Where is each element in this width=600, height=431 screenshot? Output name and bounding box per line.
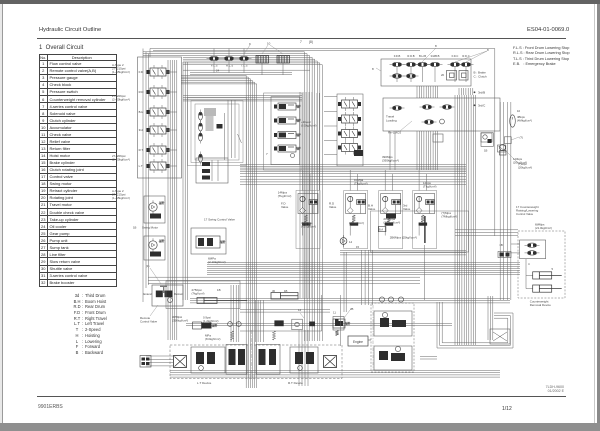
check block small bbox=[433, 134, 443, 142]
section title bbox=[39, 45, 83, 51]
svg-text:Retract: Retract bbox=[174, 292, 183, 296]
brake booster block left bbox=[140, 356, 151, 368]
top dark strip bbox=[0, 0, 600, 4]
left page edge bbox=[0, 4, 3, 424]
svg-text:(8): (8) bbox=[309, 40, 313, 44]
check circle on pilot line 2 bbox=[236, 322, 241, 327]
counterweight removal cylinder 2 bbox=[533, 285, 552, 292]
wire pump verticals bbox=[299, 92, 301, 298]
svg-text:(42kgf/cm²): (42kgf/cm²) bbox=[301, 225, 316, 229]
svg-text:(20kgf/cm²): (20kgf/cm²) bbox=[518, 166, 532, 170]
svg-text:4: 4 bbox=[528, 262, 530, 266]
wire stubs to 3-series bank bbox=[324, 96, 337, 98]
wire swing feeder lines bbox=[183, 95, 302, 97]
pilot line gauge box bbox=[292, 319, 303, 330]
relief valve left of pump bbox=[333, 319, 345, 328]
svg-text:9: 9 bbox=[249, 42, 251, 46]
counterweight removal cylinder 1 bbox=[533, 272, 552, 279]
3-series bank valve 2 bbox=[342, 115, 358, 123]
pilot valve 3rd/B bbox=[422, 105, 431, 109]
relief block B.A bbox=[378, 227, 386, 232]
counterweight pilot valve lower bbox=[527, 251, 536, 255]
svg-text:(4Mkgf/cm²): (4Mkgf/cm²) bbox=[517, 119, 532, 123]
solenoid box B bbox=[447, 71, 457, 81]
page number bbox=[502, 406, 512, 412]
wire drain verticals below travel bbox=[298, 330, 300, 386]
wire below H2 lines bbox=[148, 276, 420, 278]
svg-text:3rd/C: 3rd/C bbox=[478, 104, 486, 108]
check valve chain bbox=[199, 112, 203, 120]
svg-text:7: 7 bbox=[266, 152, 268, 156]
accumulator F.D assembly bbox=[296, 191, 320, 249]
svg-text:3rd: 3rd bbox=[139, 128, 143, 132]
wire assembly risers bbox=[302, 170, 304, 191]
travel device outer box bbox=[170, 345, 342, 379]
svg-text:1B: 1B bbox=[217, 288, 221, 292]
brake/clutch pilot valve box bbox=[381, 59, 471, 86]
wire below assemblies bundle bbox=[340, 250, 466, 252]
right gray strip bbox=[597, 4, 600, 431]
solenoid valve block 10b bbox=[277, 56, 290, 64]
svg-text:Swing Motor: Swing Motor bbox=[142, 226, 158, 230]
wire H2 bundle bbox=[207, 262, 520, 264]
svg-text:(1~15kgf/cm²): (1~15kgf/cm²) bbox=[112, 196, 130, 200]
check circle on pilot line bbox=[228, 322, 233, 327]
3-series bank valve 3 bbox=[342, 130, 358, 138]
pump unit outer box bbox=[371, 303, 414, 372]
svg-text:14: 14 bbox=[298, 308, 302, 312]
pilot line spring bbox=[335, 331, 338, 336]
parts table bbox=[0, 0, 600, 1]
footer rule bbox=[37, 396, 566, 397]
left legend bbox=[73, 293, 107, 356]
oil cooler box bbox=[490, 329, 510, 344]
svg-text:2B: 2B bbox=[350, 307, 354, 311]
svg-text:B.H.B: B.H.B bbox=[419, 54, 426, 58]
pilot valve R.L.S bbox=[228, 49, 230, 56]
bank valve R.T bbox=[150, 146, 166, 154]
header title bbox=[39, 27, 101, 33]
svg-text:24: 24 bbox=[216, 69, 220, 73]
wire right return risers bbox=[487, 296, 489, 340]
take-up cylinder A bbox=[197, 298, 217, 304]
wire nested return rects bottom-right bbox=[437, 302, 513, 348]
wire rotating joint lines bbox=[240, 309, 330, 311]
swing motor upper bbox=[144, 196, 165, 223]
svg-text:L.T: L.T bbox=[139, 164, 143, 168]
header doc number bbox=[527, 27, 569, 33]
secondary pilot valve bbox=[392, 74, 401, 78]
pilot valve T.L.S bbox=[243, 49, 245, 56]
svg-text:(?kgf/cm²): (?kgf/cm²) bbox=[192, 292, 205, 296]
svg-text:F.L.S: F.L.S bbox=[211, 64, 218, 68]
wire assemblies to pump verticals bbox=[343, 252, 345, 312]
svg-text:R.D.B: R.D.B bbox=[407, 54, 414, 58]
upper mid component box bbox=[196, 158, 228, 183]
pilot line blob a bbox=[274, 320, 283, 326]
svg-text:Valve: Valve bbox=[368, 207, 376, 211]
svg-text:1B: 1B bbox=[499, 243, 503, 247]
svg-text:(?): (?) bbox=[520, 136, 523, 140]
big box around right assemblies bbox=[371, 211, 469, 252]
svg-text:(Tkgf/cm²): (Tkgf/cm²) bbox=[278, 194, 292, 198]
solenoid valve block 10a bbox=[256, 56, 269, 64]
svg-text:R.D: R.D bbox=[139, 90, 144, 94]
3-series bank valve 1 bbox=[342, 100, 358, 108]
svg-text:11: 11 bbox=[333, 311, 336, 315]
travel motor L.T bbox=[174, 356, 187, 368]
svg-text:8: 8 bbox=[435, 44, 437, 48]
remote control valve box bbox=[152, 285, 183, 306]
svg-text:8: 8 bbox=[372, 67, 374, 71]
spring L.T bbox=[230, 331, 233, 340]
accumulator capsule bbox=[510, 115, 516, 127]
bank valve R.D bbox=[150, 88, 166, 96]
wire check chain verticals bbox=[227, 100, 229, 158]
counterweight pilot valve upper bbox=[527, 243, 536, 247]
counterbalance stack R.T bbox=[256, 345, 280, 375]
wire cluster downlinks bbox=[389, 131, 391, 170]
svg-text:(2~20kgf/cm²): (2~20kgf/cm²) bbox=[112, 158, 130, 162]
check small square bbox=[504, 137, 511, 144]
travel loading valve box bbox=[383, 98, 500, 131]
wire section box edges bbox=[321, 295, 323, 331]
svg-text:Removal Device: Removal Device bbox=[530, 303, 551, 307]
pilot valve lower bbox=[424, 120, 433, 124]
brake valve block R.T bbox=[290, 347, 318, 373]
wire left riser pair bbox=[142, 49, 144, 303]
wire main loop top band to mid risers bbox=[183, 52, 305, 341]
bottom gray strip bbox=[0, 423, 600, 431]
svg-text:(20kgf/cm²): (20kgf/cm²) bbox=[513, 161, 527, 165]
svg-text:B.H: B.H bbox=[139, 110, 144, 114]
valve assembly B.H bbox=[379, 191, 403, 249]
wire H1 bundle bbox=[240, 164, 466, 166]
swing control valve bbox=[191, 228, 226, 254]
gear pump upper group bbox=[374, 311, 412, 336]
svg-text:Valve: Valve bbox=[281, 205, 289, 209]
mid relief valve 3rd bbox=[278, 145, 296, 152]
svg-text:3rd/B.B: 3rd/B.B bbox=[431, 54, 440, 58]
svg-text:(1~15kgf/cm²): (1~15kgf/cm²) bbox=[112, 70, 130, 74]
bank valve B.H bbox=[150, 108, 166, 116]
svg-text:R.L.S: R.L.S bbox=[226, 64, 233, 68]
travel loading pilot valve bbox=[392, 106, 401, 110]
svg-text:7: 7 bbox=[300, 40, 302, 44]
svg-text:17 Swing Control Valve: 17 Swing Control Valve bbox=[204, 218, 235, 222]
svg-text:Engine: Engine bbox=[353, 340, 363, 344]
svg-text:Loading: Loading bbox=[386, 118, 397, 122]
wire pilot row lower bundle bbox=[190, 72, 292, 74]
svg-text:F.D: F.D bbox=[139, 70, 143, 74]
svg-text:15: 15 bbox=[356, 245, 360, 249]
mid relief valve R.D bbox=[278, 117, 296, 124]
3-series control valve bank box bbox=[337, 94, 363, 166]
pressure switch circle bbox=[440, 119, 445, 124]
double check valve right bbox=[498, 252, 511, 258]
svg-text:2B6Mpa (25kgf/cm²): 2B6Mpa (25kgf/cm²) bbox=[390, 236, 417, 240]
spring R.T bbox=[272, 331, 275, 340]
pump drive shaft bbox=[372, 305, 374, 370]
mid relief valve F.D bbox=[278, 132, 296, 139]
svg-text:20: 20 bbox=[441, 73, 445, 77]
slow return valve box bbox=[481, 133, 493, 147]
svg-text:Control Valve: Control Valve bbox=[516, 212, 534, 216]
svg-text:B.A: B.A bbox=[379, 229, 383, 232]
wire mid risers right of column bbox=[316, 93, 318, 190]
valve assembly 3rd bbox=[413, 191, 437, 249]
svg-text:(42kgf/cm²): (42kgf/cm²) bbox=[349, 221, 364, 225]
wire upper mid riser bbox=[224, 113, 226, 160]
svg-text:Valve: Valve bbox=[403, 207, 411, 211]
footer code bbox=[38, 404, 63, 410]
svg-text:Control Valve: Control Valve bbox=[140, 320, 158, 324]
wire right vertical bundle V2 bbox=[454, 95, 456, 345]
relief block 390 bbox=[354, 150, 363, 156]
svg-text:Extend: Extend bbox=[144, 292, 153, 296]
svg-text:Valve: Valve bbox=[329, 205, 337, 209]
rotating joint block bbox=[333, 317, 344, 331]
wire row lower pilot line bbox=[186, 323, 452, 325]
pilot valve F.L.S bbox=[213, 49, 215, 56]
bank valve F.D bbox=[150, 68, 166, 76]
bank right loop bundle bbox=[182, 62, 184, 300]
svg-text:3rd/B: 3rd/B bbox=[478, 91, 485, 95]
wire loop bundle into main vertical bundle bbox=[181, 75, 246, 388]
pilot line arrow blob bbox=[309, 322, 315, 327]
cooler shade blocks bbox=[204, 108, 216, 116]
wire counterweight valve feeds bbox=[511, 243, 520, 245]
engine bbox=[348, 336, 368, 346]
svg-text:(?Mkgf/cm²): (?Mkgf/cm²) bbox=[441, 215, 457, 219]
svg-text:C : Clutch: C : Clutch bbox=[474, 75, 488, 79]
wire top-left feeder bundle bbox=[143, 51, 183, 53]
svg-text:10: 10 bbox=[517, 109, 521, 113]
svg-text:(395kgf/cm²): (395kgf/cm²) bbox=[382, 159, 399, 163]
3-series bank valve 4 bbox=[342, 144, 358, 152]
svg-text:(Tkgf/cm²): (Tkgf/cm²) bbox=[354, 182, 368, 186]
bank valve 3rd bbox=[150, 126, 166, 134]
svg-text:R.T: R.T bbox=[139, 148, 144, 152]
svg-text:(209kgf/cm²): (209kgf/cm²) bbox=[383, 221, 400, 225]
pilot valve 3rd/C bbox=[442, 105, 451, 109]
wire right column risers bbox=[499, 102, 501, 300]
svg-text:1B: 1B bbox=[133, 226, 137, 230]
solenoid box C bbox=[459, 71, 468, 81]
brake valve block L.T bbox=[191, 347, 225, 373]
wire bank to travel feeders bbox=[146, 355, 173, 357]
svg-text:1B: 1B bbox=[284, 289, 288, 293]
svg-text:(Tkgf/cm²): (Tkgf/cm²) bbox=[423, 185, 437, 189]
footer right tiny text bbox=[544, 385, 564, 393]
svg-text:(8.0kgf/cm²): (8.0kgf/cm²) bbox=[205, 337, 220, 341]
svg-text:T.L.S: T.L.S bbox=[241, 64, 248, 68]
gear pump lower group bbox=[374, 346, 412, 370]
travel centerline bbox=[251, 330, 253, 379]
check block small 2 bbox=[481, 133, 492, 142]
travel motor R.T bbox=[324, 356, 337, 368]
counterweight control valve box bbox=[518, 231, 565, 298]
check chain area box bbox=[195, 104, 239, 160]
svg-text:(2~20kgf/cm²): (2~20kgf/cm²) bbox=[112, 98, 130, 102]
svg-text:R.T Device: R.T Device bbox=[288, 381, 303, 385]
svg-text:5: 5 bbox=[552, 267, 554, 271]
check valve circles row bbox=[379, 297, 384, 302]
take-up cylinder B bbox=[271, 293, 298, 300]
svg-text:F.D.B: F.D.B bbox=[394, 54, 401, 58]
svg-text:30: 30 bbox=[272, 289, 276, 293]
counterbalance stack L.T bbox=[226, 345, 247, 375]
bank valve L.T bbox=[150, 162, 166, 170]
shuttle valve small bbox=[498, 145, 506, 152]
wire V2 top risers bbox=[458, 88, 460, 95]
top-right legend bbox=[513, 46, 570, 68]
wire row through check circles bbox=[190, 298, 510, 300]
mid relief valve B.H bbox=[278, 103, 296, 110]
swing motor lower bbox=[144, 236, 165, 260]
brake pilot motor bbox=[340, 238, 347, 245]
header rule bbox=[37, 38, 566, 39]
wire bottom bundle bbox=[170, 370, 500, 372]
wire band A right of bank bbox=[183, 69, 310, 71]
bank output bus bbox=[167, 60, 169, 340]
wire into counterweight valve bbox=[455, 229, 518, 231]
wire between pilot boxes bbox=[416, 86, 418, 98]
mid column drain circle bbox=[291, 154, 295, 158]
4-series control valve bank outline bbox=[138, 57, 182, 178]
svg-text:(21.0kgf/cm²): (21.0kgf/cm²) bbox=[535, 226, 552, 230]
svg-text:(1): (1) bbox=[146, 264, 149, 268]
top right small comp bbox=[500, 145, 506, 151]
accumulator R.D assembly bbox=[344, 191, 368, 249]
svg-text:14: 14 bbox=[349, 240, 353, 244]
wire top main pressure line bbox=[150, 49, 495, 237]
svg-text:L.T Device: L.T Device bbox=[197, 381, 212, 385]
svg-text:1B: 1B bbox=[484, 149, 488, 153]
secondary pilot valve bbox=[406, 74, 415, 78]
mid relief valve column box bbox=[264, 93, 302, 170]
svg-text:(2.10kgf/cm²): (2.10kgf/cm²) bbox=[208, 260, 226, 264]
svg-text:(0.5kgf/cm²): (0.5kgf/cm²) bbox=[301, 124, 316, 128]
svg-text:(350kgf/cm²): (350kgf/cm²) bbox=[172, 319, 188, 323]
E.B column bar bbox=[424, 216, 426, 243]
svg-text:F.D.C: F.D.C bbox=[452, 54, 459, 58]
wire remote outline bbox=[166, 281, 240, 309]
